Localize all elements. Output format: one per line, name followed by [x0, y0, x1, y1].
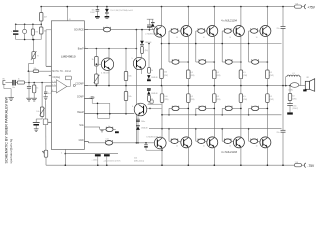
- wire top rail to Q12 collector: [214, 6, 216, 8]
- resistor base stopper (top row 2): [198, 29, 205, 34]
- transistor Q16 MJL21193 output: [207, 137, 218, 148]
- pin CC: [84, 85, 88, 87]
- pin SINK: [84, 126, 99, 128]
- resistor R4 clip 10k: [28, 70, 30, 72]
- capacitor C comp 10p: [91, 96, 94, 98]
- network R-D to ground (top): [148, 44, 150, 68]
- svg-text:SCHEMATIC BY SIBER PARKALEV BW: SCHEMATIC BY SIBER PARKALEV BW: [4, 96, 8, 163]
- svg-text:0,5: 0,5: [270, 96, 273, 98]
- wire base riser (top row 2): [195, 31, 197, 62]
- wire Q17 collector to bottom rail: [240, 147, 242, 165]
- svg-text:3n3: 3n3: [48, 93, 51, 95]
- svg-text:0,5: 0,5: [217, 96, 220, 98]
- wire riser upper (bottom row 3): [221, 108, 223, 114]
- transistor Q14 MJL21194 output: [260, 26, 271, 37]
- capacitor C10 decoupling electrolytic: [95, 154, 101, 156]
- svg-text:MUTE: 5V - 40mA: MUTE: 5V - 40mA: [52, 70, 71, 73]
- svg-text:2: 2: [85, 47, 86, 49]
- wire Q14 emitter: [266, 36, 268, 70]
- capacitor small box Q7: [150, 100, 153, 103]
- wire riser lower (bottom row 4): [248, 129, 250, 142]
- speaker LS1: [305, 81, 309, 89]
- resistor emitter-base (bottom row 2): [199, 106, 206, 111]
- svg-text:(2W): (2W): [292, 98, 296, 100]
- diode D2 1N4148: [141, 30, 143, 41]
- wire driver collector to bottom rail: [161, 149, 163, 166]
- svg-text:3. MJE15033: 3. MJE15033: [146, 136, 159, 138]
- wire snubber column: [282, 6, 284, 8]
- trimmer VR2 bias preset: [95, 74, 99, 84]
- svg-text:(5W): (5W): [191, 75, 195, 77]
- wire riser lower (bottom row 3): [221, 129, 223, 142]
- wire riser lower (bottom row 1): [168, 129, 170, 142]
- resistor emitter 0R1 5W (top row 2): [213, 70, 217, 79]
- clip detector box: [65, 76, 71, 80]
- svg-text:4: 4: [61, 152, 62, 154]
- wire driver emitter to base bus: [161, 37, 163, 69]
- wire top rail to driver collector: [161, 6, 163, 8]
- svg-text:10: 10: [229, 37, 231, 39]
- wire Q11 emitter: [187, 36, 189, 70]
- wire top rail to Q11 collector: [188, 6, 190, 8]
- wire pin 8 internal: [51, 91, 56, 93]
- resistor emitter 0R1 5W (top row 1): [187, 70, 191, 79]
- wire +75V top supply rail: [41, 6, 294, 8]
- ground: [26, 97, 32, 99]
- svg-text:LME49810: LME49810: [61, 55, 76, 59]
- wire Q15 collector to bottom rail: [187, 147, 189, 165]
- LED D1: [24, 24, 26, 26]
- capacitor C15 22n bottom: [282, 86, 284, 131]
- svg-text:10: 10: [142, 44, 144, 46]
- resistor R comp to mid rail (bottom): [125, 113, 127, 115]
- resistor emitter-base (bottom row 3): [225, 106, 232, 111]
- resistor base stopper (top row 1): [171, 29, 178, 34]
- svg-text:100: 100: [164, 72, 167, 74]
- wire clamp to collector bottom: [146, 149, 162, 151]
- pin SOURCE: [84, 29, 88, 31]
- svg-text:4 x MJL21193: 4 x MJL21193: [221, 150, 237, 154]
- inductor L1: [285, 85, 287, 87]
- wire: [95, 66, 97, 74]
- svg-text:10: 10: [256, 37, 258, 39]
- resistor emitter 0R1 5W (bottom row 4): [266, 86, 268, 94]
- resistor emitter-base (top row 3): [225, 60, 232, 65]
- svg-text:22n: 22n: [277, 28, 280, 30]
- svg-text:10k: 10k: [36, 111, 39, 113]
- resistor R11 driver emitter bottom: [160, 94, 164, 103]
- svg-text:0,5: 0,5: [217, 72, 220, 74]
- wire GND pin to bottom driver base: [105, 141, 112, 146]
- svg-text:+ (100u): + (100u): [92, 160, 99, 162]
- wire In- internal: [51, 85, 56, 87]
- wire Q13 emitter: [240, 36, 242, 70]
- capacitor C12 speedup: [149, 29, 151, 31]
- transistor Q15 MJL21193 output: [181, 137, 192, 148]
- resistor emitter-base (top row 1): [172, 60, 179, 65]
- capacitor C16 zobel 100n: [289, 101, 291, 104]
- svg-text:1N4148: 1N4148: [141, 128, 147, 130]
- resistor R2 1M: [32, 24, 34, 26]
- resistor base stopper (top row 3): [224, 29, 231, 34]
- svg-text:1k: 1k: [36, 87, 38, 89]
- wire COMP corner route: [91, 99, 93, 104]
- trimmer VR3 gain: [41, 82, 43, 84]
- ground bar: [105, 16, 110, 18]
- resistor emitter-base (bottom row 1): [172, 106, 179, 111]
- ground feedback: [34, 128, 39, 130]
- resistor emitter 0R1 5W (top row 3): [239, 70, 243, 79]
- wire bottom base bus 2: [149, 128, 282, 130]
- resistor base stopper (bottom row 4): [251, 139, 258, 144]
- svg-text:0,5: 0,5: [243, 72, 246, 74]
- svg-text:(10R): (10R): [289, 90, 294, 92]
- wire base of Q5: [96, 63, 101, 65]
- svg-text:(5W): (5W): [191, 99, 195, 101]
- ground mini sink: [101, 130, 104, 132]
- zener diode ZD1: [106, 6, 108, 8]
- op-amp U1 LME49810 package outline: [51, 21, 84, 150]
- trimmer VR1 offset: [33, 40, 35, 52]
- resistor emitter-base (top row 2): [199, 60, 206, 65]
- resistor base stopper (top row 4): [251, 29, 258, 34]
- wire top base bus: [162, 43, 282, 45]
- wire input to In+: [25, 82, 52, 84]
- wire Q12 emitter: [213, 36, 215, 70]
- svg-text:1k: 1k: [151, 70, 153, 72]
- svg-text:10: 10: [229, 146, 231, 148]
- transistor Q12 MJL21194 output: [207, 26, 218, 37]
- svg-text:1N4148: 1N4148: [151, 77, 157, 79]
- wire base riser (top row 3): [221, 31, 223, 62]
- svg-text:0,5: 0,5: [243, 96, 246, 98]
- wire BiasP to bias column: [88, 48, 136, 50]
- svg-text:(5W): (5W): [243, 99, 247, 101]
- svg-text:COMP: COMP: [77, 97, 84, 99]
- transistor Q5 BD139 bias servo: [108, 48, 110, 50]
- wire -75V bottom supply rail: [46, 164, 295, 166]
- svg-text:sparkalev@abv.bg: sparkalev@abv.bg: [9, 138, 13, 163]
- wire riser upper (bottom row 1): [168, 108, 170, 114]
- wire top rail to Q14 collector: [267, 6, 269, 8]
- pin COMP: [84, 98, 92, 100]
- resistor R3b 10k: [40, 24, 42, 26]
- pin stub 75: [49, 75, 52, 77]
- pin V+ top of U1: [66, 7, 68, 21]
- ground: [43, 96, 47, 98]
- svg-text:0,5: 0,5: [191, 96, 194, 98]
- svg-text:(2W): (2W): [164, 75, 168, 77]
- wire aux bus lower: [16, 39, 42, 41]
- pin MUTE: [46, 65, 51, 67]
- svg-text:10: 10: [203, 146, 205, 148]
- svg-text:Clipflag: Clipflag: [52, 77, 60, 79]
- ground: [31, 97, 37, 99]
- diode D3 1N4148: [137, 122, 139, 127]
- svg-text:1N4148: 1N4148: [145, 42, 151, 44]
- capacitor C14 22n: [281, 26, 286, 28]
- resistor emitter 0R1 5W (bottom row 2): [213, 86, 215, 94]
- wire aux bus upper: [16, 23, 42, 25]
- svg-text:(250V): (250V): [292, 108, 298, 110]
- resistor R comp to mid rail (top): [125, 48, 127, 50]
- transistor Q17 MJL21193 output: [233, 137, 244, 148]
- transistor Q13 MJL21194 output: [233, 26, 244, 37]
- pin V- bottom of U1: [64, 149, 66, 153]
- wire trimmer to clip network: [33, 59, 35, 64]
- wire base riser (top row 4): [248, 31, 250, 62]
- svg-text:4. BD139: 4. BD139: [101, 72, 110, 74]
- wire riser lower (bottom row 2): [195, 129, 197, 142]
- wire output mid rail: [88, 85, 291, 87]
- svg-text:10k: 10k: [128, 75, 131, 77]
- resistor emitter-base (top row 4): [252, 60, 259, 65]
- svg-text:100: 100: [164, 96, 167, 98]
- wire bottom base bus 1: [162, 114, 282, 116]
- svg-text:(1k): (1k): [145, 50, 149, 52]
- svg-text:2. MJE15032: 2. MJE15032: [145, 33, 158, 35]
- node internal: [73, 84, 75, 86]
- svg-text:+75V: +75V: [307, 5, 315, 9]
- svg-text:(5W): (5W): [217, 99, 221, 101]
- svg-text:SOURCE: SOURCE: [74, 30, 84, 32]
- svg-text:(2W): (2W): [164, 99, 168, 101]
- svg-text:CCOMP: CCOMP: [75, 84, 84, 86]
- svg-text:BiasM: BiasM: [77, 112, 83, 114]
- svg-text:(5W): (5W): [270, 75, 274, 77]
- svg-text:22k: 22k: [134, 157, 137, 159]
- network R-D to ground (bottom): [147, 88, 151, 89]
- capacitor C7 input filter: [28, 82, 30, 84]
- wire Q7 right connections: [149, 108, 151, 110]
- wire clamp tick: [147, 18, 154, 20]
- svg-text:4k7: 4k7: [44, 17, 47, 19]
- fuse F1: [295, 5, 302, 8]
- svg-text:(680+220u): (680+220u): [134, 160, 144, 162]
- capacitor C9 comp small box: [43, 119, 48, 125]
- ground bar: [95, 16, 100, 18]
- svg-text:10k: 10k: [34, 68, 37, 70]
- pin BiasP: [84, 48, 88, 50]
- diode D4 clamp: [152, 27, 154, 29]
- resistor R8 feedback shunt: [44, 150, 48, 157]
- svg-text:10u: 10u: [12, 87, 15, 89]
- wire driver emitter to bus: [161, 102, 163, 137]
- svg-text:41: 41: [69, 19, 71, 21]
- trimmer arrow R8: [42, 151, 44, 153]
- wire ground bus: [65, 153, 118, 155]
- capacitor C8 feedback electrolytic: [41, 117, 43, 120]
- capacitor below Q7: [137, 116, 139, 119]
- wire Q18 emitter: [266, 102, 268, 137]
- wire Q16 collector to bottom rail: [213, 147, 215, 165]
- ground bar top network: [147, 80, 151, 81]
- svg-text:10: 10: [292, 95, 294, 97]
- capacitor C1 electrolytic 47u: [15, 24, 17, 26]
- wire top rail to Q13 collector: [240, 6, 242, 8]
- wire clip riser: [28, 71, 30, 82]
- transistor Q11 MJL21194 output: [181, 26, 192, 37]
- svg-text:(5W): (5W): [217, 75, 221, 77]
- connector -75V terminal: [304, 163, 305, 167]
- svg-text:10: 10: [203, 37, 205, 39]
- svg-text:GND: GND: [79, 140, 84, 142]
- resistor R12 zobel 10R 2W: [289, 85, 291, 87]
- connector +75V terminal: [304, 5, 305, 9]
- transistor Q2 MJE15033 driver: [154, 137, 166, 149]
- svg-text:100V: 100V: [90, 12, 95, 14]
- resistor R10 driver emitter: [160, 69, 164, 79]
- wire Q17 emitter: [240, 102, 242, 137]
- wire In+ internal: [51, 81, 56, 83]
- capacitor C6 input 10u: [12, 80, 13, 86]
- wire SOURCE to driver base: [136, 29, 154, 31]
- resistor R bias 1k: [96, 48, 98, 50]
- svg-text:10: 10: [176, 37, 178, 39]
- resistor R13 parallel 10R: [290, 83, 299, 88]
- ground input shield: [3, 84, 5, 88]
- svg-text:10: 10: [256, 146, 258, 148]
- resistor R3 4k7: [40, 6, 42, 8]
- wire Q18 collector to bottom rail: [266, 147, 268, 165]
- pin BiasM: [84, 113, 134, 115]
- pin In-: [46, 85, 52, 87]
- svg-text:10k: 10k: [128, 96, 131, 98]
- svg-text:0,5: 0,5: [270, 72, 273, 74]
- svg-text:4 x MJL21194: 4 x MJL21194: [221, 18, 237, 22]
- svg-text:+(100n/100V) 4x BOX: +(100n/100V) 4x BOX: [103, 160, 121, 162]
- polarity mark speaker: [303, 89, 306, 91]
- svg-text:1k: 1k: [151, 98, 153, 100]
- svg-text:1N4148: 1N4148: [151, 93, 157, 95]
- wire bias column: [135, 30, 137, 143]
- wire mute riser: [45, 30, 47, 67]
- wire riser upper (bottom row 2): [195, 108, 197, 114]
- svg-text:-75V: -75V: [307, 164, 315, 168]
- fuse F2: [295, 164, 302, 167]
- svg-text:1k: 1k: [18, 79, 20, 81]
- wire Q16 emitter: [213, 102, 215, 137]
- resistor base stopper (bottom row 3): [224, 139, 231, 144]
- capacitor C4 100u rail decoupling: [97, 6, 99, 8]
- svg-text:V.1: V.1: [292, 73, 295, 75]
- wire feedback column to negative rail: [45, 100, 47, 150]
- resistor R6 input return 1k: [33, 82, 35, 84]
- transistor Q6 vbe multiplier top: [133, 57, 145, 69]
- capacitor to ground on SINK net: [115, 131, 119, 133]
- pin GND right: [84, 141, 88, 143]
- resistor base stopper (bottom row 1): [171, 139, 178, 144]
- wire riser upper (bottom row 4): [248, 108, 250, 114]
- resistor emitter-base (bottom row 4): [252, 106, 259, 111]
- connector input terminal: [3, 81, 6, 85]
- svg-text:100n: 100n: [141, 121, 145, 123]
- resistor R vbe 1k: [141, 45, 143, 47]
- svg-text:10u: 10u: [91, 9, 94, 11]
- op-amp internal amplifier triangle: [56, 80, 67, 93]
- resistor emitter 0R1 5W (bottom row 3): [240, 86, 242, 94]
- resistor base stopper (bottom row 2): [198, 139, 205, 144]
- capacitor C11 decoupling electrolytic: [104, 154, 110, 156]
- svg-text:0,5: 0,5: [191, 72, 194, 74]
- transistor Q1 MJE15032 driver: [154, 25, 166, 37]
- capacitor C13 speedup bottom: [145, 143, 147, 145]
- svg-text:(5W): (5W): [243, 75, 247, 77]
- svg-text:(5W): (5W): [270, 99, 274, 101]
- pin FB: [48, 121, 52, 123]
- svg-text:3. In-: 3. In-: [52, 85, 56, 87]
- transistor Q7 vbe multiplier bottom: [134, 103, 147, 116]
- resistor emitter 0R1 5W (bottom row 1): [187, 86, 189, 94]
- svg-text:7,5V-1,3W (1N4738A)-LmD8: 7,5V-1,3W (1N4738A)-LmD8: [110, 9, 133, 12]
- wire Q15 emitter: [187, 102, 189, 137]
- transistor Q18 MJL21193 output: [260, 137, 271, 148]
- resistor R5 input 1k: [17, 81, 24, 84]
- svg-text:10: 10: [176, 146, 178, 148]
- capacitor C In- 3n3: [45, 86, 47, 92]
- wire base riser (top row 1): [168, 31, 170, 62]
- svg-text:BiasP: BiasP: [78, 48, 84, 50]
- resistor emitter 0R1 5W (top row 4): [266, 70, 270, 79]
- svg-text:4. In+: 4. In+: [52, 81, 56, 83]
- svg-text:1k: 1k: [91, 59, 93, 61]
- svg-text:22n: 22n: [277, 132, 280, 134]
- ground zobel: [287, 112, 293, 114]
- wire amp output to clip box: [67, 85, 71, 87]
